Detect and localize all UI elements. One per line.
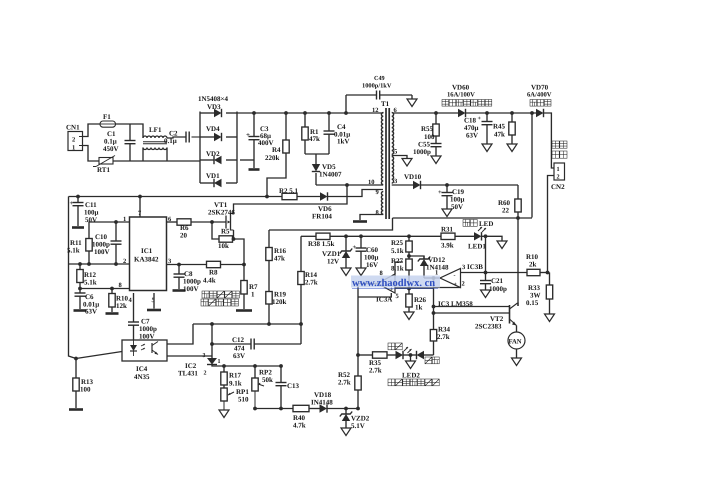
resistor R26 xyxy=(408,289,410,295)
svg-text:VD1: VD1 xyxy=(206,172,220,180)
resistor R14 xyxy=(300,236,302,271)
capacitor C13 xyxy=(280,366,282,382)
svg-text:R38 1.5k: R38 1.5k xyxy=(308,240,335,248)
svg-text:1000p: 1000p xyxy=(489,285,507,293)
led LED2 red xyxy=(417,351,425,359)
capacitor C4 xyxy=(328,113,330,131)
svg-text:F1: F1 xyxy=(103,113,111,121)
node n R52 bot xyxy=(356,407,360,411)
svg-text:FR104: FR104 xyxy=(312,213,332,221)
node n R1 top xyxy=(303,111,307,115)
wire LF1 top to C2 xyxy=(167,137,186,138)
watermark xyxy=(351,276,440,288)
svg-text:47k: 47k xyxy=(309,135,320,143)
svg-text:47k: 47k xyxy=(494,131,505,139)
wire CN1 pin2 to F1 xyxy=(83,124,101,137)
wire rail after VD60 xyxy=(466,112,537,114)
capacitor C8 xyxy=(178,265,180,274)
svg-text:2SC2383: 2SC2383 xyxy=(475,323,502,331)
diode VD1 xyxy=(214,179,222,187)
node n C18 top xyxy=(485,111,489,115)
svg-text:VD2: VD2 xyxy=(206,150,220,158)
ground C21 xyxy=(481,290,491,298)
svg-text:1: 1 xyxy=(251,291,255,299)
transformer T1 secondary winding 5-3 xyxy=(392,157,394,184)
node n R45 top xyxy=(510,111,514,115)
wire VT2 base wire xyxy=(434,312,510,314)
wire RT1 to LF1 xyxy=(113,160,200,162)
resistor R12 xyxy=(79,264,81,270)
node n R12 top xyxy=(78,262,82,266)
zener VD12 xyxy=(423,256,425,259)
wire secondary top rail xyxy=(393,112,458,114)
wire return bus upper xyxy=(393,217,533,219)
resistor R7 xyxy=(243,265,245,281)
node n R55 top xyxy=(434,111,438,115)
node n R25 R27 xyxy=(407,254,411,258)
wire VD6 to pin9 xyxy=(328,190,384,197)
zener VZD1 xyxy=(345,236,347,251)
fuse F1 xyxy=(100,121,116,127)
wire LF1 bottom riser xyxy=(166,148,168,162)
svg-text:50V: 50V xyxy=(85,216,97,224)
svg-text:RT1: RT1 xyxy=(97,166,110,174)
wire pin5 wire xyxy=(153,293,155,309)
svg-text:9.1k: 9.1k xyxy=(229,380,242,388)
wire pin4 wire xyxy=(133,293,135,322)
node n C4 top xyxy=(327,111,331,115)
transformer T1 core xyxy=(385,108,387,219)
node n VZD2 top xyxy=(344,407,348,411)
led LED1 xyxy=(474,232,482,240)
svg-text:4N35: 4N35 xyxy=(134,373,150,381)
svg-text:IC1: IC1 xyxy=(141,247,153,255)
svg-text:1000p: 1000p xyxy=(413,148,431,156)
ground R45 xyxy=(507,144,517,152)
svg-text:+: + xyxy=(438,189,442,196)
svg-text:6A/400V: 6A/400V xyxy=(527,92,552,99)
svg-text:22: 22 xyxy=(502,207,510,215)
svg-text:0.1μ: 0.1μ xyxy=(164,137,177,145)
wire C3 tap to rail xyxy=(240,159,254,161)
svg-text:LED1: LED1 xyxy=(468,243,486,251)
wire between leds xyxy=(403,354,417,356)
resistor R10b 2k xyxy=(527,269,540,275)
wire pin8 wire xyxy=(360,215,383,221)
resistor R35 xyxy=(373,352,388,358)
ground C60 xyxy=(356,268,366,276)
resistor R4 xyxy=(285,113,287,140)
resistor R60 xyxy=(517,185,519,199)
wire VT1 source down xyxy=(233,230,235,239)
thermistor RT1 xyxy=(99,158,113,165)
svg-text:3.9k: 3.9k xyxy=(441,242,454,250)
svg-text:4: 4 xyxy=(129,297,133,304)
node n R11 bot xyxy=(87,262,91,266)
potentiometer RP1 xyxy=(221,388,227,401)
svg-text:2.7k: 2.7k xyxy=(437,333,450,341)
capacitor C7 xyxy=(128,321,139,323)
label note two 2.2k resistors line2 xyxy=(201,299,208,306)
arrow terminal above T1 xyxy=(407,99,417,107)
node n C21 cross xyxy=(484,271,488,275)
wire IC3A pin5 stub xyxy=(358,293,391,297)
resistor R55 xyxy=(435,113,437,124)
svg-text:4.4k: 4.4k xyxy=(203,277,216,285)
svg-text:100V: 100V xyxy=(94,248,110,256)
wire IC3A out xyxy=(358,284,378,356)
node n R19 bus xyxy=(267,322,271,326)
wire bridge left rail xyxy=(199,112,201,184)
diode VD3 xyxy=(214,109,222,117)
capacitor C2 xyxy=(185,132,187,143)
node n R10a top xyxy=(110,287,114,291)
node n C6 top xyxy=(78,287,82,291)
svg-text:2k: 2k xyxy=(529,261,537,269)
wire left bus xyxy=(69,197,77,359)
wire VD3 row xyxy=(200,112,214,114)
node n C13 bot xyxy=(279,407,283,411)
wire VD12 to IC3B out xyxy=(424,277,440,279)
node n C10 top xyxy=(114,220,118,224)
svg-text:KA3842: KA3842 xyxy=(134,256,159,264)
svg-text:R55: R55 xyxy=(421,125,434,133)
arrow terminal pin5 xyxy=(402,159,412,167)
diode VD6 xyxy=(320,192,328,200)
svg-text:63V: 63V xyxy=(466,132,478,140)
wire R5 riser xyxy=(212,222,219,239)
wire VT2 collector riser xyxy=(517,303,520,306)
svg-text:10k: 10k xyxy=(218,242,229,250)
node n R33 top xyxy=(546,271,550,275)
wire pin8 wire xyxy=(80,288,130,290)
resistor R19 xyxy=(266,292,272,305)
resistor R34 xyxy=(430,330,436,342)
svg-text:R5: R5 xyxy=(221,228,230,236)
wire pin2 wire xyxy=(69,263,130,265)
wire R35 to green xyxy=(387,354,396,356)
capacitor C55 xyxy=(431,143,442,145)
node n R14 bus xyxy=(299,322,303,326)
svg-text:VD10: VD10 xyxy=(404,173,422,181)
svg-text:5.1k: 5.1k xyxy=(67,247,80,255)
arrow terminal fan xyxy=(512,358,522,366)
wire VD18 to R52 xyxy=(327,408,358,410)
svg-text:1N4007: 1N4007 xyxy=(319,171,342,179)
connector CN1 xyxy=(68,132,83,151)
svg-text:120k: 120k xyxy=(272,298,287,306)
capacitor C19 xyxy=(446,185,448,192)
node n C13 top xyxy=(279,364,283,368)
wire TL431 node wire xyxy=(212,365,281,367)
wire aux collector wire xyxy=(434,306,511,308)
svg-text:5.1k: 5.1k xyxy=(84,279,97,287)
node n IC3B out xyxy=(432,276,436,280)
svg-text:100: 100 xyxy=(80,386,91,394)
vertical from VD70 node xyxy=(531,113,533,218)
optocoupler IC4 xyxy=(122,340,167,361)
wire return bus step xyxy=(269,218,393,230)
wire IC4 led cathode diagonal xyxy=(76,352,122,359)
node n R17 top xyxy=(222,364,226,368)
capacitor C11 xyxy=(77,197,79,203)
wire R8 to R7 xyxy=(221,264,245,266)
ground R26 xyxy=(404,312,414,320)
wire VT2 emitter down xyxy=(516,326,518,333)
capacitor C49 xyxy=(346,94,376,96)
capacitor C10 xyxy=(115,222,117,241)
capacitor C1 xyxy=(129,124,131,141)
wire pin7 riser xyxy=(139,197,141,218)
wire pin3 wire xyxy=(167,264,207,266)
ground pin5 xyxy=(147,309,161,312)
node n base wire xyxy=(432,311,436,315)
node n RP2 bot xyxy=(253,407,257,411)
resistor R5 xyxy=(219,236,233,242)
capacitor C3 xyxy=(253,113,255,136)
capacitor C60 xyxy=(360,236,362,247)
label LED2 desc dual color xyxy=(388,379,395,386)
ic IC2 TL431 xyxy=(207,358,217,365)
node n R52 top xyxy=(356,353,360,357)
node n led mid xyxy=(409,353,413,357)
ground VZD1 xyxy=(341,268,351,276)
svg-text:12k: 12k xyxy=(116,302,127,310)
label CN2 desc charging xyxy=(552,141,559,148)
wire bottom wire xyxy=(255,408,293,410)
svg-text:2.7k: 2.7k xyxy=(338,379,351,387)
wire rail 12V left xyxy=(301,235,316,237)
svg-text:2: 2 xyxy=(204,371,207,377)
node n R60 bus xyxy=(516,216,520,220)
resistor R38 xyxy=(316,233,330,239)
led LED2 green xyxy=(396,351,404,359)
diode VD18 xyxy=(320,404,328,412)
svg-text:+: + xyxy=(478,116,482,122)
svg-text:3: 3 xyxy=(462,264,466,271)
svg-text:5.1k: 5.1k xyxy=(391,247,404,255)
svg-text:R45: R45 xyxy=(493,123,506,131)
resistor R10a 12k xyxy=(111,289,113,294)
wire junction to VD12 xyxy=(409,256,424,259)
svg-text:TL431: TL431 xyxy=(178,370,198,378)
resistor R17 xyxy=(223,366,225,372)
svg-text:1: 1 xyxy=(435,270,438,277)
node n RP2 top xyxy=(253,364,257,368)
node n R4 bottom xyxy=(265,195,269,199)
choke LF1 xyxy=(143,136,167,138)
wire TL431 riser xyxy=(211,324,213,358)
resistor R6 xyxy=(177,219,191,225)
wire led row left xyxy=(358,354,373,356)
wire red led to R34 col xyxy=(424,354,434,356)
resistor R13 xyxy=(75,359,77,379)
svg-text:2: 2 xyxy=(462,281,465,288)
svg-text:12V: 12V xyxy=(327,258,339,266)
svg-text:50k: 50k xyxy=(262,376,273,384)
wire pin3 to VD10 xyxy=(392,184,413,186)
label LED2 red label xyxy=(425,357,432,364)
node n C49 left xyxy=(344,111,348,115)
transistor VT2 xyxy=(509,305,511,324)
node n C3 top xyxy=(252,111,256,115)
wire pin5 wire xyxy=(392,156,407,159)
resistor R8 xyxy=(207,261,221,267)
wire IC4 collector riser xyxy=(167,324,193,344)
svg-text:1N5408×4: 1N5408×4 xyxy=(198,95,229,103)
svg-text:510: 510 xyxy=(238,396,249,404)
wire VD4 row xyxy=(200,136,214,138)
svg-text:220k: 220k xyxy=(265,154,280,162)
node n C11 top xyxy=(76,195,80,199)
resistor R27 xyxy=(406,259,412,270)
label VD60 desc fast recovery diode xyxy=(442,100,449,107)
transformer T1 aux winding xyxy=(381,192,383,215)
svg-text:450V: 450V xyxy=(103,145,119,153)
resistor R40 xyxy=(293,405,309,411)
wire IC4 emitter wire xyxy=(167,355,212,357)
svg-text:C49: C49 xyxy=(374,75,385,82)
wire IC3B pin2 feedback xyxy=(434,287,461,289)
connector CN2 xyxy=(554,163,565,180)
label note two 2.2k resistors line1 xyxy=(202,291,209,298)
wire rail to LED1 xyxy=(455,235,474,237)
node n aux wire xyxy=(432,305,436,309)
node n pin7 riser xyxy=(138,195,142,199)
svg-text:8: 8 xyxy=(376,210,380,217)
svg-text:R17: R17 xyxy=(229,372,242,380)
resistor R16 xyxy=(268,230,270,248)
svg-text:CN2: CN2 xyxy=(551,183,565,191)
mosfet VT1 xyxy=(225,216,227,229)
svg-text:50V: 50V xyxy=(451,203,463,211)
label VD70 desc diode xyxy=(530,100,537,107)
wire VD2 row xyxy=(200,159,214,161)
svg-text:CN1: CN1 xyxy=(66,124,80,132)
svg-text:5: 5 xyxy=(394,149,398,156)
label LED2 green label xyxy=(388,343,395,350)
node n VZD1 top xyxy=(344,234,348,238)
node n C10 bot xyxy=(114,262,118,266)
ground RP1 xyxy=(219,410,229,418)
wire R2 to VD6 xyxy=(297,196,320,198)
svg-text:8.1k: 8.1k xyxy=(391,265,404,273)
wire R1 C4 join xyxy=(305,153,329,155)
resistor R11 xyxy=(86,239,92,252)
node n C12 left xyxy=(210,342,214,346)
resistor R31 xyxy=(441,233,455,239)
svg-text:C21: C21 xyxy=(491,277,504,285)
svg-text:16V: 16V xyxy=(366,261,378,269)
label LED1 desc red xyxy=(463,220,470,227)
wire IC3B sense wire xyxy=(461,272,528,274)
ground C19 xyxy=(442,209,452,217)
svg-text:47k: 47k xyxy=(274,255,285,263)
svg-text:10: 10 xyxy=(368,179,375,186)
svg-text:IC4: IC4 xyxy=(136,365,148,373)
wire pin1 wire xyxy=(89,222,130,239)
ground C55 xyxy=(431,156,441,164)
wire F1 to C1 node xyxy=(116,124,144,138)
svg-text:VD60: VD60 xyxy=(452,84,470,92)
resistor R45 xyxy=(511,113,513,122)
capacitor C12 xyxy=(212,343,251,345)
svg-text:1k: 1k xyxy=(415,304,423,312)
svg-text:C13: C13 xyxy=(287,382,300,390)
op-amp IC3A xyxy=(378,274,396,293)
zener VZD2 xyxy=(345,409,347,415)
svg-text:2.7k: 2.7k xyxy=(305,279,318,287)
svg-text:3: 3 xyxy=(394,178,398,185)
svg-text:5.1V: 5.1V xyxy=(351,422,365,430)
svg-text:2SK2746: 2SK2746 xyxy=(208,209,235,217)
wire VD1 row xyxy=(200,182,214,184)
svg-text:-: - xyxy=(454,273,456,279)
svg-text:LED: LED xyxy=(479,220,493,228)
resistor R2 xyxy=(282,193,297,199)
diode VD70 xyxy=(536,109,544,117)
potentiometer RP2 xyxy=(254,366,256,378)
arrow terminal LED2 xyxy=(406,361,416,369)
svg-text:1: 1 xyxy=(72,145,75,152)
node n VT1 src xyxy=(232,237,236,241)
svg-text:IN4148: IN4148 xyxy=(311,399,333,407)
wire top DC bus xyxy=(237,112,382,114)
fan motor xyxy=(508,332,525,349)
svg-text:VD4: VD4 xyxy=(206,125,220,133)
wire choke bottom left riser xyxy=(142,148,144,162)
svg-text:C12: C12 xyxy=(232,336,245,344)
diode VD5 xyxy=(312,164,320,172)
svg-text:16A/100V: 16A/100V xyxy=(447,92,475,99)
wire pin12 stub xyxy=(382,112,383,114)
svg-text:63V: 63V xyxy=(85,308,97,316)
svg-text:R8: R8 xyxy=(209,269,218,277)
diode VD10 xyxy=(413,181,421,189)
svg-text:0.15: 0.15 xyxy=(526,299,539,307)
wire IC3A lower input xyxy=(395,287,434,289)
svg-text:4.7k: 4.7k xyxy=(293,422,306,430)
wire R10b to CN2 node xyxy=(540,272,550,274)
wire pin10 wire xyxy=(316,184,383,186)
ground pin8 xyxy=(353,220,367,223)
resistor R25 xyxy=(408,236,410,241)
svg-text:12: 12 xyxy=(372,107,379,114)
svg-text:100V: 100V xyxy=(139,333,155,341)
node n R13 top xyxy=(74,357,78,361)
svg-text:63V: 63V xyxy=(233,352,245,360)
ground C18 xyxy=(482,144,492,152)
resistor R1 xyxy=(304,113,306,127)
node n VD70 in xyxy=(530,111,534,115)
node n C8 top xyxy=(177,263,181,267)
wire rail 12V mid xyxy=(330,235,441,237)
diode VD60 xyxy=(458,109,466,117)
wire bridge right rail xyxy=(236,112,238,184)
wire R5 to source node xyxy=(233,239,245,265)
wire led mid riser xyxy=(410,355,412,361)
label CN2 desc socket xyxy=(552,151,559,158)
svg-text:2.7k: 2.7k xyxy=(369,367,382,375)
ground R33 xyxy=(545,314,555,322)
wire VT1 drain wire xyxy=(234,185,348,214)
svg-text:LF1: LF1 xyxy=(149,126,162,134)
wire CN2 pin2 down xyxy=(548,176,555,273)
wire main aux wire xyxy=(69,196,283,198)
node n C19 top xyxy=(445,183,449,187)
svg-text:VD3: VD3 xyxy=(207,103,221,111)
wire fan to ground xyxy=(516,349,518,358)
